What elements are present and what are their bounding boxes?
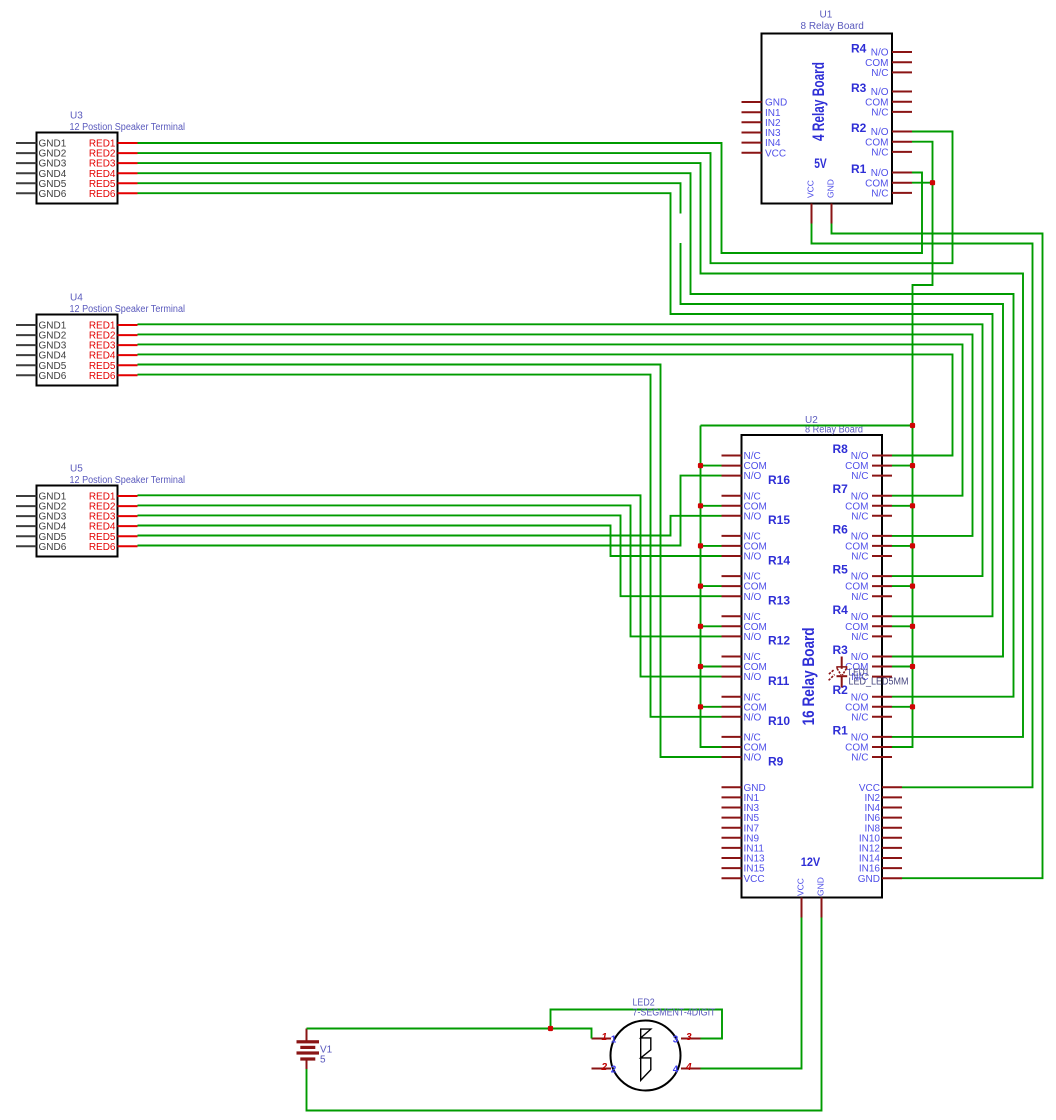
- svg-text:16 Relay Board: 16 Relay Board: [799, 627, 818, 725]
- svg-text:GND: GND: [858, 874, 880, 885]
- svg-text:R4: R4: [851, 42, 867, 56]
- svg-text:N/C: N/C: [871, 108, 888, 119]
- wire U4.RED1 to U2.R5.N/O: [138, 324, 983, 576]
- wire U2.R10.COM to bus: [701, 706, 722, 708]
- wire U1.GND to U2.GND: [832, 224, 1043, 879]
- wire COM bus left to U2.R9.COM: [701, 426, 722, 748]
- junction U2.R14.COM: [698, 543, 703, 548]
- svg-text:R9: R9: [768, 754, 784, 768]
- U2 R6 pin COM stub: [872, 545, 892, 547]
- U2 R10 pin COM stub: [722, 706, 742, 708]
- LED2 pin 2 stub: [592, 1068, 612, 1070]
- svg-text:GND6: GND6: [39, 189, 67, 200]
- U3 pin RED3 stub: [118, 162, 138, 164]
- U5 pin GND2 stub: [16, 505, 37, 507]
- svg-text:12 Postion Speaker Terminal: 12 Postion Speaker Terminal: [70, 304, 186, 315]
- svg-text:R15: R15: [768, 513, 790, 527]
- U1 R3 pin N/C stub: [892, 111, 912, 113]
- U1 R1 pin N/O stub: [892, 172, 912, 174]
- U2 R8 pin N/C stub: [872, 475, 892, 477]
- junction U2.R6.COM: [910, 543, 915, 548]
- LED2 pin 4 stub: [681, 1068, 701, 1070]
- U2 R10 pin N/O stub: [722, 716, 742, 718]
- U4 12 Position Speaker Terminal box: [37, 315, 118, 386]
- U2 R14 pin N/C stub: [722, 535, 742, 537]
- wire U4.RED3 to U2.R7.N/O: [138, 344, 963, 495]
- U1 R4 pin COM stub: [892, 61, 912, 63]
- U2 R3 pin N/C stub: [872, 676, 892, 678]
- U2 R1 pin COM stub: [872, 746, 892, 748]
- U2 R16 pin N/C stub: [722, 455, 742, 457]
- wire COM bus link over U2: [701, 425, 913, 427]
- U2 pin IN5 bottom-left stub: [722, 817, 742, 819]
- svg-text:N/C: N/C: [851, 552, 868, 563]
- U5 pin RED3 stub: [118, 515, 138, 517]
- wire U3.RED4 to U2.R2.N/O: [138, 173, 1014, 697]
- U2 R11 pin COM stub: [722, 666, 742, 668]
- U2 pin IN11 bottom-left stub: [722, 847, 742, 849]
- U2 R15 pin N/C stub: [722, 495, 742, 497]
- svg-text:N/C: N/C: [871, 189, 888, 200]
- svg-text:R16: R16: [768, 473, 790, 487]
- U2 R9 pin COM stub: [722, 746, 742, 748]
- svg-text:R3: R3: [851, 81, 867, 95]
- U3 pin GND3 stub: [16, 162, 37, 164]
- U3 pin GND4 stub: [16, 172, 37, 174]
- U1 R2 pin N/O stub: [892, 131, 912, 133]
- U2 R14 pin N/O stub: [722, 555, 742, 557]
- U2 pin IN6 bottom-right stub: [882, 817, 902, 819]
- U2 pin GND bottom-right stub: [882, 877, 902, 879]
- wire U5.RED4 to U2.R14.N/O: [138, 526, 722, 557]
- battery V1 plate 1 long: [297, 1040, 320, 1043]
- svg-text:N/O: N/O: [744, 712, 762, 723]
- wire U1.VCC to U2.VCC: [812, 224, 1033, 788]
- U2 R16 pin COM stub: [722, 465, 742, 467]
- U1 R3 pin N/O stub: [892, 91, 912, 93]
- wire U2.R13.COM to bus: [701, 585, 722, 587]
- svg-text:N/O: N/O: [744, 511, 762, 522]
- wire U3.RED3 to U2.R1.N/O: [138, 163, 1024, 737]
- U2 R12 pin N/C stub: [722, 615, 742, 617]
- wire U3.RED1 to U1.R1.N/O: [138, 143, 923, 253]
- junction U2.R2.COM: [910, 704, 915, 709]
- svg-text:N/O: N/O: [744, 672, 762, 683]
- LED2 digit glyph: [641, 1029, 651, 1080]
- U3 pin GND5 stub: [16, 182, 37, 184]
- svg-text:VCC: VCC: [796, 878, 806, 896]
- U3 pin GND2 stub: [16, 152, 37, 154]
- U1 pin IN3 stub: [742, 132, 762, 134]
- U4 pin GND3 stub: [16, 344, 37, 346]
- U3 pin GND1 stub: [16, 142, 37, 144]
- svg-text:VCC: VCC: [744, 874, 765, 885]
- U2 pin GND bottom stub: [821, 898, 823, 918]
- U2 pin IN15 bottom-left stub: [722, 867, 742, 869]
- U2 pin VCC bottom-right stub: [882, 786, 902, 788]
- wire U2.R7.COM to bus: [892, 505, 913, 507]
- U4 pin RED6 stub: [118, 374, 138, 376]
- junction U2.R7.COM: [910, 503, 915, 508]
- wire U4.RED2 to U2.R6.N/O: [138, 334, 973, 536]
- wire U5.RED5 to U2.R15.N/O: [138, 516, 722, 536]
- U2 R10 pin N/C stub: [722, 696, 742, 698]
- U2 R12 pin N/O stub: [722, 635, 742, 637]
- U4 pin GND2 stub: [16, 334, 37, 336]
- junction U2.R8.COM: [910, 463, 915, 468]
- battery V1 plate 4 short: [300, 1057, 315, 1060]
- U1 R3 pin COM stub: [892, 101, 912, 103]
- junction U2.R12.COM: [698, 624, 703, 629]
- svg-text:12V: 12V: [801, 857, 821, 869]
- svg-text:N/C: N/C: [851, 712, 868, 723]
- U1 R2 pin COM stub: [892, 141, 912, 143]
- U4 pin GND4 stub: [16, 354, 37, 356]
- U3 pin RED4 stub: [118, 172, 138, 174]
- U5 pin RED4 stub: [118, 525, 138, 527]
- svg-text:N/O: N/O: [744, 632, 762, 643]
- svg-text:2: 2: [600, 1062, 607, 1073]
- LED1 triangle dashed side right: [842, 669, 846, 675]
- U5 pin RED5 stub: [118, 535, 138, 537]
- U2 pin IN4 bottom-right stub: [882, 807, 902, 809]
- U5 pin GND4 stub: [16, 525, 37, 527]
- svg-text:1: 1: [601, 1032, 607, 1043]
- U2 pin IN7 bottom-left stub: [722, 827, 742, 829]
- svg-text:N/O: N/O: [744, 592, 762, 603]
- U2 R4 pin N/C stub: [872, 635, 892, 637]
- U2 R6 pin N/C stub: [872, 555, 892, 557]
- LED1 cathode bar: [837, 675, 848, 677]
- svg-text:N/C: N/C: [871, 148, 888, 159]
- LED1 cathode lead: [841, 676, 843, 687]
- U2 R4 pin COM stub: [872, 625, 892, 627]
- U2 R5 pin COM stub: [872, 585, 892, 587]
- U1 8 Relay Board box: [762, 34, 893, 204]
- U2 pin IN13 bottom-left stub: [722, 857, 742, 859]
- wire U4.RED6 to U2.R10.N/O: [138, 375, 722, 717]
- U1 pin VCC bottom stub: [811, 204, 813, 224]
- U2 R13 pin N/C stub: [722, 575, 742, 577]
- svg-text:R2: R2: [833, 683, 849, 697]
- wire U2.R15.COM to bus: [701, 505, 722, 507]
- LED1 light arrow 1: [829, 670, 834, 675]
- U2 pin VCC bottom-left stub: [722, 877, 742, 879]
- U2 R11 pin N/O stub: [722, 676, 742, 678]
- wire U4.RED5 to U2.R9.N/O: [138, 365, 722, 758]
- junction COM bus link: [910, 423, 915, 428]
- LED1 triangle top edge: [837, 667, 847, 669]
- svg-text:U5: U5: [70, 464, 83, 475]
- svg-text:RED6: RED6: [89, 189, 116, 200]
- svg-text:R11: R11: [768, 674, 790, 688]
- svg-text:1: 1: [611, 1035, 617, 1046]
- U3 pin RED1 stub: [118, 142, 138, 144]
- U2 R6 pin N/O stub: [872, 535, 892, 537]
- U2 pin GND bottom-left stub: [722, 786, 742, 788]
- svg-text:3: 3: [686, 1032, 692, 1043]
- wire U5.RED6 to U2.R16.N/O: [138, 476, 722, 546]
- wire U2.R2.COM to bus: [892, 706, 913, 708]
- U1 pin GND stub: [742, 101, 762, 103]
- LED1 anode lead: [841, 657, 843, 669]
- U4 pin RED1 stub: [118, 324, 138, 326]
- svg-text:U1: U1: [820, 10, 833, 21]
- U2 R15 pin N/O stub: [722, 515, 742, 517]
- U5 pin GND3 stub: [16, 515, 37, 517]
- wire U4.RED4 to U2.R8.N/O: [138, 354, 953, 455]
- svg-text:R7: R7: [833, 482, 849, 496]
- U2 R7 pin COM stub: [872, 505, 892, 507]
- U5 pin RED1 stub: [118, 495, 138, 497]
- U2 R8 pin N/O stub: [872, 455, 892, 457]
- svg-text:N/O: N/O: [744, 471, 762, 482]
- wire U2.R4.COM to bus: [892, 625, 913, 627]
- wire U2.R5.COM to bus: [892, 585, 913, 587]
- svg-text:GND6: GND6: [39, 371, 67, 382]
- U2 R16 pin N/O stub: [722, 475, 742, 477]
- svg-text:N/C: N/C: [851, 471, 868, 482]
- U1 pin IN1 stub: [742, 111, 762, 113]
- svg-text:N/C: N/C: [851, 753, 868, 764]
- svg-text:N/C: N/C: [851, 632, 868, 643]
- svg-text:R14: R14: [768, 553, 790, 567]
- junction U1 R1/R2 COM: [930, 180, 935, 185]
- svg-text:5V: 5V: [814, 156, 827, 171]
- U2 R8 pin COM stub: [872, 465, 892, 467]
- U2 R13 pin N/O stub: [722, 595, 742, 597]
- wire U3.RED2 to U1.R2.N/O: [138, 132, 953, 264]
- U3 12 Position Speaker Terminal box: [37, 133, 118, 204]
- wire U5.RED1 to U2.R11.N/O: [138, 495, 722, 676]
- U4 pin RED3 stub: [118, 344, 138, 346]
- svg-text:R2: R2: [851, 121, 867, 135]
- svg-text:U3: U3: [70, 111, 83, 122]
- battery V1 bottom lead: [306, 1061, 308, 1070]
- svg-text:N/O: N/O: [744, 552, 762, 563]
- U4 pin RED2 stub: [118, 334, 138, 336]
- wire U2.GND bottom to battery minus: [307, 918, 822, 1111]
- svg-text:N/C: N/C: [851, 592, 868, 603]
- svg-text:R6: R6: [833, 522, 849, 536]
- battery V1 top lead: [306, 1029, 308, 1042]
- U3 pin RED2 stub: [118, 152, 138, 154]
- LED1 light arrow 2: [829, 675, 835, 681]
- U2 R11 pin N/C stub: [722, 656, 742, 658]
- svg-text:R10: R10: [768, 714, 790, 728]
- wire U2.R14.COM to bus: [701, 545, 722, 547]
- battery V1 plate 2 short: [300, 1046, 315, 1049]
- U2 R9 pin N/C stub: [722, 736, 742, 738]
- U1 R1 pin N/C stub: [892, 192, 912, 194]
- svg-text:LED_LED5MM: LED_LED5MM: [849, 677, 909, 688]
- U2 R7 pin N/C stub: [872, 515, 892, 517]
- U1 pin IN2 stub: [742, 121, 762, 123]
- U2 R3 pin COM stub: [872, 666, 892, 668]
- U2 R1 pin N/O stub: [872, 736, 892, 738]
- U2 pin IN16 bottom-right stub: [882, 867, 902, 869]
- U2 R7 pin N/O stub: [872, 495, 892, 497]
- U2 pin IN3 bottom-left stub: [722, 807, 742, 809]
- svg-text:GND: GND: [826, 179, 836, 198]
- U2 pin IN1 bottom-left stub: [722, 796, 742, 798]
- svg-text:7-SEGMENT-4DIGIT: 7-SEGMENT-4DIGIT: [633, 1008, 716, 1019]
- U2 pin VCC bottom stub: [801, 898, 803, 918]
- wire U2.VCC bottom to LED2 pin 4: [701, 918, 802, 1069]
- svg-text:R1: R1: [833, 723, 849, 737]
- U1 R4 pin N/O stub: [892, 51, 912, 53]
- wire U2.R6.COM to bus: [892, 545, 913, 547]
- U1 pin GND bottom stub: [831, 204, 833, 224]
- svg-text:N/C: N/C: [871, 68, 888, 79]
- U4 pin GND5 stub: [16, 364, 37, 366]
- wire U1.R1.COM to COM bus: [892, 183, 933, 747]
- svg-text:R3: R3: [833, 643, 849, 657]
- LED2 pin 1 stub: [592, 1038, 612, 1040]
- U3 pin GND6 stub: [16, 192, 37, 194]
- wire battery plus to LED2 pin 1: [307, 1029, 592, 1039]
- U5 12 Position Speaker Terminal box: [37, 486, 118, 557]
- svg-text:RED6: RED6: [89, 542, 116, 553]
- svg-text:5: 5: [320, 1055, 326, 1066]
- U2 R2 pin N/O stub: [872, 696, 892, 698]
- svg-text:R5: R5: [833, 563, 849, 577]
- wire LED2 pin 3 to battery plus: [551, 1010, 723, 1039]
- U5 pin GND6 stub: [16, 545, 37, 547]
- svg-text:VCC: VCC: [806, 180, 816, 198]
- U5 pin RED6 stub: [118, 545, 138, 547]
- wire U2.R16.COM to bus: [701, 465, 722, 467]
- svg-text:VCC: VCC: [765, 148, 786, 159]
- LED2 pin 3 stub: [681, 1038, 701, 1040]
- junction U2.R4.COM: [910, 624, 915, 629]
- U2 16 Relay Board box: [742, 435, 883, 898]
- U2 R1 pin N/C stub: [872, 756, 892, 758]
- svg-text:R13: R13: [768, 594, 790, 608]
- junction battery plus node: [548, 1026, 553, 1031]
- U2 R12 pin COM stub: [722, 625, 742, 627]
- wire U1.R2.COM to COM junction: [912, 142, 933, 183]
- junction U2.R5.COM: [910, 584, 915, 589]
- U2 R5 pin N/C stub: [872, 595, 892, 597]
- U4 pin GND6 stub: [16, 374, 37, 376]
- U2 R2 pin N/C stub: [872, 716, 892, 718]
- U2 R5 pin N/O stub: [872, 575, 892, 577]
- U4 pin RED5 stub: [118, 364, 138, 366]
- wire U3.RED5 segment A: [138, 183, 681, 213]
- wire U3.RED5 segment B to U2.R3.N/O: [681, 243, 1004, 657]
- U1 pin IN4 stub: [742, 142, 762, 144]
- svg-text:12 Postion Speaker Terminal: 12 Postion Speaker Terminal: [70, 475, 186, 486]
- junction U2.R10.COM: [698, 704, 703, 709]
- svg-text:4: 4: [673, 1065, 679, 1076]
- junction U2.R3.COM: [910, 664, 915, 669]
- U4 pin GND1 stub: [16, 324, 37, 326]
- wire U2.R12.COM to bus: [701, 625, 722, 627]
- wire U2.R11.COM to bus: [701, 666, 722, 668]
- svg-text:8 Relay Board: 8 Relay Board: [801, 21, 864, 32]
- wire U2.R8.COM to bus: [892, 465, 913, 467]
- wire U5.RED3 to U2.R13.N/O: [138, 515, 722, 596]
- wire U5.RED2 to U2.R12.N/O: [138, 505, 722, 636]
- U2 pin IN10 bottom-right stub: [882, 837, 902, 839]
- svg-text:R12: R12: [768, 634, 790, 648]
- U2 pin IN9 bottom-left stub: [722, 837, 742, 839]
- U1 R2 pin N/C stub: [892, 151, 912, 153]
- wire U2.R3.COM to bus: [892, 666, 913, 668]
- U1 pin VCC stub: [742, 152, 762, 154]
- svg-text:2: 2: [611, 1065, 617, 1076]
- svg-text:U4: U4: [70, 293, 83, 304]
- svg-text:N/C: N/C: [851, 511, 868, 522]
- U2 pin IN2 bottom-right stub: [882, 796, 902, 798]
- U3 pin RED5 stub: [118, 182, 138, 184]
- junction U2.R13.COM: [698, 584, 703, 589]
- U2 R15 pin COM stub: [722, 505, 742, 507]
- U2 R14 pin COM stub: [722, 545, 742, 547]
- svg-text:N/O: N/O: [744, 753, 762, 764]
- junction U2.R11.COM: [698, 664, 703, 669]
- U5 pin GND1 stub: [16, 495, 37, 497]
- junction U2.R15.COM: [698, 503, 703, 508]
- U2 R9 pin N/O stub: [722, 756, 742, 758]
- U5 pin RED2 stub: [118, 505, 138, 507]
- U2 pin IN14 bottom-right stub: [882, 857, 902, 859]
- U2 pin IN12 bottom-right stub: [882, 847, 902, 849]
- svg-text:4: 4: [685, 1062, 692, 1073]
- svg-text:R1: R1: [851, 162, 867, 176]
- svg-text:4 Relay Board: 4 Relay Board: [810, 62, 828, 141]
- svg-text:GND6: GND6: [39, 542, 67, 553]
- U2 R2 pin COM stub: [872, 706, 892, 708]
- U1 R1 pin COM stub: [892, 182, 912, 184]
- LED2 circle body: [611, 1021, 681, 1091]
- LED1 triangle dashed side left: [837, 669, 841, 675]
- junction U2.R16.COM: [698, 463, 703, 468]
- U1 R4 pin N/C stub: [892, 71, 912, 73]
- svg-text:3: 3: [673, 1035, 679, 1046]
- wire U3.RED6 to U2.R4.N/O: [138, 193, 993, 616]
- U4 pin RED4 stub: [118, 354, 138, 356]
- U2 R13 pin COM stub: [722, 585, 742, 587]
- U3 pin RED6 stub: [118, 192, 138, 194]
- svg-text:R4: R4: [833, 603, 849, 617]
- battery V1 plate 3 long: [297, 1051, 320, 1054]
- svg-text:12 Postion Speaker Terminal: 12 Postion Speaker Terminal: [70, 122, 186, 133]
- svg-text:RED6: RED6: [89, 371, 116, 382]
- svg-text:R8: R8: [833, 442, 849, 456]
- svg-text:GND: GND: [816, 877, 826, 896]
- U2 R4 pin N/O stub: [872, 615, 892, 617]
- U2 R3 pin N/O stub: [872, 656, 892, 658]
- U5 pin GND5 stub: [16, 535, 37, 537]
- U2 pin IN8 bottom-right stub: [882, 827, 902, 829]
